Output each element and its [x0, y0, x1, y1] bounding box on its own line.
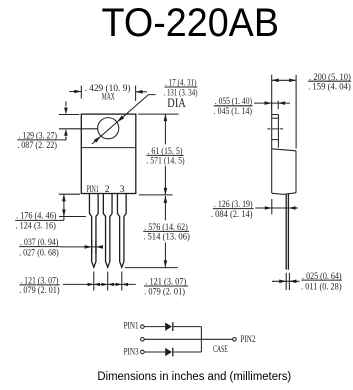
svg-text:. 079 (2. 01): . 079 (2. 01)	[19, 285, 59, 296]
dim .055 right tick	[277, 101, 279, 109]
svg-text:. 011 (0. 28): . 011 (0. 28)	[301, 281, 342, 292]
fraction bar .200	[308, 80, 351, 82]
dim .429 right arrow line	[136, 91, 147, 93]
diode D1	[165, 323, 172, 331]
fraction bar .129	[17, 139, 58, 141]
dim .176 top extension line	[59, 193, 80, 195]
dim .055 left tick	[271, 101, 273, 109]
side body front edge	[295, 151, 297, 193]
dim .200 line with outward arrows	[272, 79, 296, 81]
svg-text:2: 2	[105, 184, 110, 195]
side tab top edge	[272, 114, 279, 116]
dim .025 line	[272, 280, 300, 282]
dim .129 lower arrow (pointing up)	[65, 137, 67, 140]
pitch tick pin2	[107, 272, 109, 291]
svg-text:3: 3	[120, 184, 125, 195]
dim .576 lower arrow (pointing down)	[164, 243, 166, 268]
side hole center line	[267, 128, 283, 130]
svg-text:. 079 (2. 01): . 079 (2. 01)	[144, 286, 185, 297]
fraction bar .121 right	[144, 285, 188, 287]
pin 1 outline	[89, 194, 98, 268]
side pin left edge	[285, 194, 287, 270]
svg-text:. 124 (3. 16): . 124 (3. 16)	[16, 221, 56, 232]
dim .037 tick right	[95, 241, 97, 254]
dim .61 top extension line	[138, 113, 179, 115]
side body top slant	[272, 149, 296, 151]
.200 right extension (body front)	[295, 75, 297, 149]
fraction bar .576	[143, 230, 189, 232]
svg-text:PIN1: PIN1	[87, 184, 99, 195]
DIA leader arrowhead upper	[117, 116, 124, 123]
svg-text:PIN1: PIN1	[124, 321, 139, 332]
dim .61 upper arrow (pointing up)	[164, 114, 166, 144]
front view tab/body divider line	[81, 147, 136, 149]
node CASE terminal	[141, 338, 145, 342]
dim .037 dim line	[60, 246, 103, 248]
hole center line	[59, 128, 98, 130]
dim .429 left arrow line	[69, 91, 81, 93]
svg-text:PIN2: PIN2	[241, 334, 256, 345]
DIA leader arrowhead lower	[94, 136, 101, 143]
dim .61 lower arrow (pointing down)	[164, 166, 166, 195]
side pin right edge	[287, 194, 289, 270]
dim .176 bottom extension line	[59, 216, 86, 218]
side tab back edge + .200 extension	[271, 75, 273, 149]
pitch tick pin3	[121, 272, 123, 291]
fraction bar .121 left	[19, 284, 59, 286]
terminal PIN2	[233, 338, 237, 342]
side pin bottom tick left	[285, 273, 287, 290]
fraction bar .61	[146, 154, 183, 156]
pitch arrows at pin3 tick	[116, 283, 122, 286]
side body bottom	[272, 193, 296, 195]
fraction bar .176	[15, 219, 64, 221]
svg-text:Dimensions in inches and (mill: Dimensions in inches and (millimeters)	[97, 371, 291, 383]
diode D2	[165, 348, 172, 356]
pin 2 outline	[103, 194, 112, 268]
svg-text:. 159 (4. 04): . 159 (4. 04)	[308, 81, 351, 92]
pitch tick pin1	[93, 272, 95, 291]
svg-text:CASE: CASE	[213, 344, 228, 355]
fraction bar .17	[165, 86, 198, 88]
side body back edge	[271, 149, 273, 193]
wire PIN3 to diode D2	[144, 351, 165, 353]
svg-text:. 571 (14. 5): . 571 (14. 5)	[146, 156, 184, 167]
dim .129 top extension line	[59, 114, 79, 116]
dim .429 right extension tick	[135, 86, 137, 101]
dim .055 line	[254, 102, 290, 104]
pitch dim line	[63, 283, 136, 285]
svg-text:. 027 (0. 68): . 027 (0. 68)	[19, 247, 59, 258]
dim .429 left extension tick	[80, 86, 82, 99]
pitch arrows at pin1 tick	[88, 283, 94, 286]
front view body outline	[81, 114, 136, 193]
svg-text:MAX: MAX	[102, 91, 115, 102]
fraction bar .037	[19, 246, 60, 248]
fraction bar .025	[301, 279, 342, 281]
terminal PIN3	[141, 350, 145, 354]
dim .61 bottom extension line	[139, 194, 173, 196]
pin 3 outline	[117, 194, 126, 268]
dim .037 tick left	[91, 241, 93, 254]
svg-text:. 087 (2. 22): . 087 (2. 22)	[17, 140, 57, 151]
wire D2 to junction	[173, 351, 202, 353]
wire D1 to junction	[173, 326, 202, 328]
fraction bar .055	[214, 105, 253, 107]
fraction bar .126	[213, 208, 254, 210]
side hole top edge	[272, 117, 279, 119]
dim .129 upper arrow line (pointing down)	[65, 102, 67, 107]
pin tip extension line	[125, 267, 178, 269]
DIA leader line	[92, 95, 156, 144]
svg-text:. 514 (13. 06): . 514 (13. 06)	[143, 232, 190, 243]
side hole bottom edge	[272, 139, 279, 141]
dim .126 back tick	[271, 199, 273, 215]
svg-text:. 084 (2. 14): . 084 (2. 14)	[211, 209, 253, 220]
svg-text:DIA: DIA	[167, 96, 186, 110]
side tab front edge	[277, 115, 279, 148]
pitch arrows at pin2 tick	[102, 283, 108, 286]
dim .576 upper arrow (pointing up)	[164, 196, 166, 220]
dim .129 leader to text	[58, 137, 66, 140]
wire CASE to PIN2	[144, 338, 232, 340]
side pin bottom tick right	[288, 273, 290, 290]
svg-text:PIN3: PIN3	[124, 347, 139, 358]
svg-text:. 045 (1. 14): . 045 (1. 14)	[214, 106, 252, 117]
wire PIN1 to diode D1	[144, 326, 165, 328]
dim .176 vertical with arrows	[63, 194, 65, 220]
svg-text:TO-220AB: TO-220AB	[102, 1, 280, 45]
mounting hole	[98, 118, 119, 139]
wire junction vertical	[200, 327, 202, 352]
terminal PIN1	[141, 325, 145, 329]
dim .126 line	[255, 207, 298, 209]
